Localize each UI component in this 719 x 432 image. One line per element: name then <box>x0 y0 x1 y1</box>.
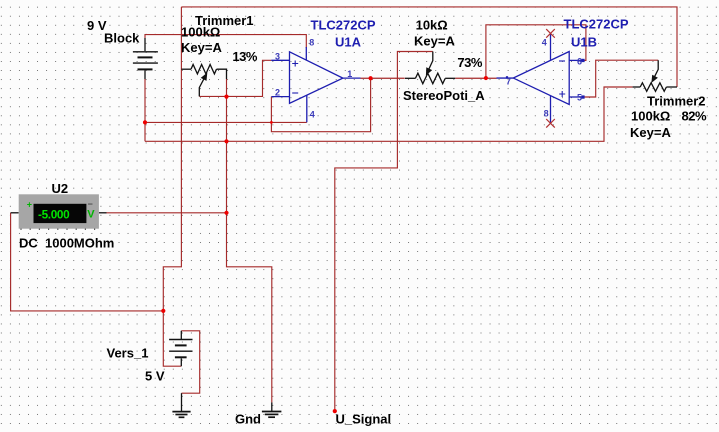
op-amp U1A pin3 <box>271 59 289 61</box>
op-amp U1B pin5 pad <box>581 95 584 98</box>
node U1B output junction <box>484 76 488 80</box>
wire U1B pin5 to trimmer2 wiper <box>583 60 658 97</box>
op-amp U1B pin8 bottom <box>550 96 552 124</box>
node U1A output junction <box>369 76 373 80</box>
op-amp U1B triangle <box>513 52 569 105</box>
wire line A to U1A pin4 <box>145 121 307 123</box>
resistor Trimmer2 right lead <box>666 86 677 88</box>
trimmer1 wiper arrowhead <box>201 73 208 81</box>
svg-text:6: 6 <box>577 57 582 67</box>
svg-text:10kΩ: 10kΩ <box>416 18 448 33</box>
svg-text:8: 8 <box>309 37 314 47</box>
svg-text:100kΩ: 100kΩ <box>631 109 670 124</box>
U1B pin8 NC cross <box>546 119 555 128</box>
svg-text:Key=A: Key=A <box>630 125 671 140</box>
svg-text:U2: U2 <box>52 181 69 196</box>
battery Block plate short 1 <box>138 56 153 58</box>
op-amp U1B minus input mark <box>559 60 565 62</box>
svg-text:Block: Block <box>104 30 140 45</box>
op-amp U1B plus input mark <box>559 91 565 97</box>
svg-text:U1A: U1A <box>335 35 362 50</box>
op-amp U1A pin8 <box>305 47 307 60</box>
svg-text:100kΩ: 100kΩ <box>181 25 220 40</box>
ground under Vers_1 bars <box>172 411 190 413</box>
svg-text:2: 2 <box>275 88 280 98</box>
grid dots over meter bottom <box>20 229 95 230</box>
svg-text:8: 8 <box>544 108 549 118</box>
svg-text:82%: 82% <box>682 109 707 124</box>
op-amp U1A pin1 <box>343 77 361 79</box>
node lineA crossing dot <box>270 121 273 124</box>
op-amp U1B pin7 <box>497 77 514 79</box>
svg-text:1: 1 <box>347 69 352 79</box>
op-amp U1A pin2 <box>271 96 289 98</box>
resistor StereoPoti zigzag <box>415 73 445 84</box>
svg-text:5: 5 <box>577 93 582 103</box>
resistor Trimmer2 left lead <box>633 86 641 88</box>
node ground/U2 junction <box>224 211 228 215</box>
op-amp U1B pin5 <box>569 96 582 98</box>
svg-text:3: 3 <box>275 51 280 61</box>
wire top rail to trimmer2 <box>181 7 677 87</box>
svg-text:+: + <box>27 200 32 210</box>
svg-text:V: V <box>87 209 95 221</box>
op-amp U1B pin4 top <box>550 33 552 59</box>
svg-text:–: – <box>88 199 93 209</box>
voltmeter U2 pins <box>11 212 107 214</box>
wire line B bottom rail <box>145 87 633 141</box>
svg-text:4: 4 <box>542 38 547 48</box>
svg-text:U1B: U1B <box>571 35 597 50</box>
node wiper/ground junction <box>224 95 228 99</box>
U1B pin4 NC cross <box>546 29 555 38</box>
wire U2 left loop <box>11 213 164 311</box>
svg-text:StereoPoti_A: StereoPoti_A <box>403 88 485 103</box>
svg-text:DC 1000MOhm: DC 1000MOhm <box>19 236 114 251</box>
wire ground vertical x226 <box>227 79 272 402</box>
svg-text:Trimmer2: Trimmer2 <box>647 94 706 109</box>
svg-text:7: 7 <box>506 76 511 86</box>
ground Gnd stem <box>271 402 273 411</box>
battery Block top pin <box>144 38 146 51</box>
battery Vers_1 plate short 2 <box>175 356 187 358</box>
wire U1A out to stereopoti <box>361 77 405 79</box>
wire battery- down <box>144 79 146 141</box>
svg-text:Key=A: Key=A <box>414 34 455 49</box>
stereopoti wiper shaft <box>428 52 432 71</box>
battery Vers_1 top pin <box>180 331 182 339</box>
node ground/lineB junction <box>224 139 228 143</box>
svg-text:Vers_1: Vers_1 <box>107 346 149 361</box>
battery Vers_1 plate long 1 <box>169 339 192 341</box>
trimmer2 wiper arrowhead <box>651 75 658 83</box>
wire trimmer1 wiper to U1A pin3 <box>199 60 271 96</box>
battery Block plate long 1 <box>133 51 158 53</box>
svg-text:-5.000: -5.000 <box>38 208 70 222</box>
wire big left loop vertical <box>163 7 181 366</box>
svg-text:13%: 13% <box>232 49 257 64</box>
node U2left/loop junction <box>161 309 165 313</box>
voltmeter U2 body <box>19 194 99 228</box>
node U_Signal terminal <box>333 409 337 413</box>
op-amp U1A triangle <box>290 52 343 104</box>
resistor Trimmer2 zigzag <box>640 83 666 92</box>
svg-text:5 V: 5 V <box>145 369 165 384</box>
battery Vers_1 plate long 2 <box>169 350 192 352</box>
svg-text:4: 4 <box>310 110 315 120</box>
svg-text:Key=A: Key=A <box>181 40 222 55</box>
battery Block bottom pin <box>144 71 146 80</box>
wire U2 right to ground rail <box>107 212 227 214</box>
op-amp U1A pin4 <box>306 95 308 122</box>
wire U1B feedback top <box>486 25 586 78</box>
wire Vers_1 plus to its ground <box>181 331 199 393</box>
op-amp U1A plus input mark <box>292 61 298 67</box>
op-amp U1B pin7 pad tick <box>506 76 508 78</box>
op-amp U1B pin6 <box>569 59 582 61</box>
resistor Trimmer1 right lead <box>217 69 227 79</box>
wire U_Signal <box>335 52 433 412</box>
wire battery+ to U1A pin8 <box>145 35 306 48</box>
svg-text:73%: 73% <box>457 55 482 70</box>
trimmer2 wiper shaft <box>654 60 658 77</box>
resistor StereoPoti right lead <box>445 77 455 79</box>
battery Block plate short 2 <box>138 68 153 70</box>
ground Gnd bars <box>262 411 282 413</box>
wire stereopoti to U1B out <box>455 77 496 79</box>
battery Vers_1 bottom pin <box>180 358 182 366</box>
trimmer1 wiper shaft <box>199 76 205 96</box>
resistor Trimmer1 left lead <box>181 68 191 70</box>
voltmeter U2 display <box>34 204 87 223</box>
op-amp U1B pin6 pad <box>581 59 584 62</box>
wire U1A feedback <box>271 78 370 131</box>
svg-text:TLC272CP: TLC272CP <box>564 17 629 32</box>
svg-text:TLC272CP: TLC272CP <box>311 18 376 33</box>
resistor Trimmer1 zigzag <box>191 65 217 74</box>
battery Vers_1 plate short 1 <box>175 344 187 346</box>
svg-text:U_Signal: U_Signal <box>336 412 392 427</box>
op-amp U1A minus input mark <box>292 92 298 94</box>
node battery/lineA junction <box>143 120 147 124</box>
resistor StereoPoti left lead <box>405 77 415 79</box>
svg-text:Gnd: Gnd <box>235 412 261 427</box>
stereopoti wiper arrowhead <box>426 67 432 75</box>
ground under Vers_1 stem <box>181 393 183 411</box>
battery Block plate long 2 <box>133 62 158 64</box>
